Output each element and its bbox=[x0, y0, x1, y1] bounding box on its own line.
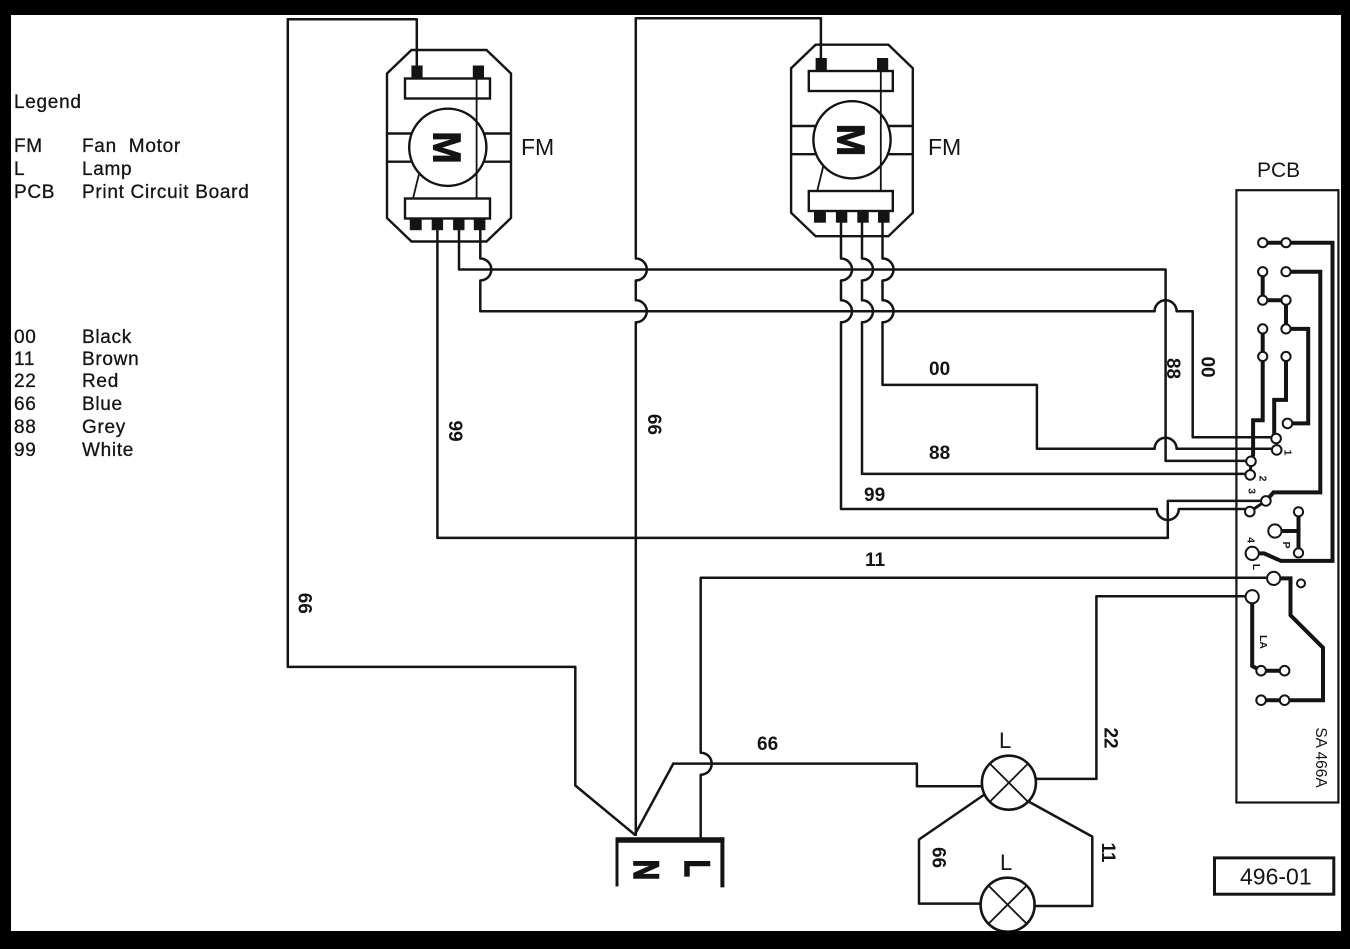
svg-text:White: White bbox=[82, 440, 134, 461]
svg-text:66: 66 bbox=[14, 394, 37, 415]
svg-text:PCB: PCB bbox=[14, 182, 55, 203]
svg-text:22: 22 bbox=[14, 371, 37, 392]
svg-text:Blue: Blue bbox=[82, 394, 123, 415]
PCB pad 3b bbox=[1245, 507, 1255, 517]
svg-text:88: 88 bbox=[1162, 358, 1183, 379]
PCB pad L bbox=[1267, 572, 1280, 585]
PCB trace row5 right to pad 1 bbox=[1274, 357, 1286, 439]
PCB pad row4 left bbox=[1258, 324, 1267, 333]
wire 11 N-L box to PCB with hop bbox=[701, 578, 1268, 838]
PCB trace row3-row4 right vertical bbox=[1284, 300, 1288, 329]
PCB pad row1 left bbox=[1258, 238, 1267, 247]
svg-text:M: M bbox=[425, 131, 468, 164]
frame border bottom bbox=[0, 931, 1350, 949]
wire 00 FM1 t4 with hop to PCB pad 1 bbox=[480, 228, 1270, 437]
PCB trace P tee bbox=[1275, 512, 1299, 553]
legend PCB row bbox=[14, 182, 249, 203]
fan motor FM1 body bbox=[387, 50, 511, 242]
wire 66 FM2 top terminal to centre line bbox=[636, 18, 821, 58]
fan motor FM1 top terminal 2 bbox=[473, 66, 484, 79]
PCB pad P trace end bbox=[1283, 419, 1293, 429]
svg-text:M: M bbox=[829, 124, 872, 157]
svg-text:Red: Red bbox=[82, 371, 119, 392]
PCB trace row3 horizontal bbox=[1263, 298, 1286, 302]
svg-text:Legend: Legend bbox=[14, 92, 82, 113]
PCB pad P bottom bbox=[1294, 548, 1303, 557]
frame border top bbox=[0, 0, 1350, 15]
svg-text:66: 66 bbox=[928, 847, 949, 868]
svg-text:2: 2 bbox=[1257, 476, 1269, 482]
PCB pad row4 right bbox=[1281, 324, 1290, 333]
PCB pad small isolated bbox=[1297, 579, 1305, 587]
legend 22 Red row bbox=[14, 371, 119, 392]
PCB pad 22 bbox=[1246, 590, 1259, 603]
PCB pad 2a bbox=[1246, 457, 1256, 467]
fan motor FM2 bottom terminal 1 bbox=[814, 211, 826, 223]
fan motor FM1 top terminal 1 bbox=[411, 66, 422, 79]
PCB trace pad 22 down to LA row1 bbox=[1252, 597, 1261, 671]
svg-text:3: 3 bbox=[1246, 488, 1258, 494]
PCB pad row1 right bbox=[1281, 238, 1290, 247]
svg-text:496-01: 496-01 bbox=[1240, 864, 1312, 890]
PCB trace LA row1 horizontal bbox=[1261, 669, 1285, 673]
PCB trace row5 left to pad 2 bbox=[1251, 357, 1263, 462]
PCB trace pad2a-pad2b link bbox=[1249, 461, 1253, 475]
svg-text:11: 11 bbox=[865, 550, 886, 571]
PCB pad LA row2 right bbox=[1280, 695, 1290, 705]
PCB pad 2b bbox=[1245, 470, 1255, 480]
frame border left bbox=[0, 0, 11, 949]
svg-text:66: 66 bbox=[757, 734, 778, 755]
svg-text:Grey: Grey bbox=[82, 417, 126, 438]
svg-text:L: L bbox=[677, 860, 717, 877]
PCB pad row5 right bbox=[1281, 352, 1290, 361]
PCB pad LA row1 left bbox=[1256, 666, 1266, 676]
svg-text:88: 88 bbox=[14, 417, 37, 438]
svg-text:SA 466A: SA 466A bbox=[1312, 727, 1329, 788]
fan motor FM2 body bbox=[791, 45, 913, 237]
drawing number box 496-01 bbox=[1215, 858, 1334, 894]
svg-text:L: L bbox=[999, 728, 1011, 753]
PCB pad row2 right bbox=[1281, 267, 1290, 276]
legend 66 Blue row bbox=[14, 394, 123, 415]
wire 88 FM1 t3 to PCB pad 2 bbox=[459, 228, 1246, 461]
svg-text:Brown: Brown bbox=[82, 349, 139, 370]
legend 11 Brown row bbox=[14, 349, 139, 370]
fan motor FM2 top terminal 2 bbox=[877, 58, 888, 71]
PCB pad 3a bbox=[1261, 496, 1271, 506]
fan motor FM2 bottom terminal 2 bbox=[836, 211, 847, 223]
fan motor FM1 bottom terminal 1 bbox=[410, 219, 422, 231]
PCB trace row4 right to pad P bbox=[1286, 329, 1308, 424]
wire 00 FM2 t3 with hops bbox=[883, 223, 1272, 449]
svg-text:L: L bbox=[1250, 564, 1262, 571]
legend FM row bbox=[14, 136, 181, 157]
svg-text:L: L bbox=[1000, 850, 1012, 875]
PCB pad row5 left bbox=[1258, 352, 1267, 361]
PCB pad P big bbox=[1268, 524, 1281, 537]
wire 66 horizontal to lamp L1 bbox=[673, 764, 982, 787]
svg-text:00: 00 bbox=[1197, 356, 1218, 377]
svg-text:LA: LA bbox=[1257, 635, 1269, 649]
fan motor FM2 bottom terminal 4 bbox=[878, 211, 890, 223]
svg-text:Lamp: Lamp bbox=[82, 159, 132, 180]
PCB pad P top bbox=[1294, 507, 1303, 516]
PCB pad 1b bbox=[1272, 445, 1282, 455]
legend 00 Black row bbox=[14, 327, 132, 348]
PCB trace row2 right to pad 3 bbox=[1266, 272, 1320, 501]
svg-text:Fan Motor: Fan Motor bbox=[82, 136, 181, 157]
fan motor FM1 bottom terminal 3 bbox=[453, 219, 464, 231]
svg-text:1: 1 bbox=[1282, 450, 1294, 456]
svg-text:88: 88 bbox=[929, 443, 950, 464]
PCB trace pad1-row to outer bracket and pad 4 bbox=[1252, 243, 1332, 561]
wire 99 FM1 t2 to PCB pad 3 bbox=[437, 228, 1260, 538]
svg-text:Print Circuit Board: Print Circuit Board bbox=[82, 182, 249, 203]
PCB board outline bbox=[1236, 190, 1338, 802]
PCB trace row4-row5 left vertical bbox=[1261, 329, 1265, 357]
svg-text:99: 99 bbox=[444, 420, 465, 441]
PCB pad row2 left bbox=[1258, 267, 1267, 276]
svg-text:FM: FM bbox=[14, 136, 43, 157]
PCB trace row2 left vertical bbox=[1261, 272, 1265, 301]
PCB pad LA row2 left bbox=[1256, 695, 1266, 705]
svg-text:99: 99 bbox=[864, 485, 885, 506]
fan motor FM2 bottom terminal 3 bbox=[857, 211, 868, 223]
wire 66 lamp L1 to lamp L2 bbox=[919, 795, 985, 904]
PCB pad row3 left bbox=[1258, 296, 1267, 305]
PCB pad 1a bbox=[1271, 434, 1281, 444]
PCB pad 4 bbox=[1246, 547, 1259, 560]
legend 88 Grey row bbox=[14, 417, 126, 438]
PCB trace pad3a-pad3b link bbox=[1250, 501, 1266, 512]
wire 88 FM2 t2 with hops bbox=[862, 223, 1245, 474]
PCB trace pad L to LA row2 bbox=[1274, 578, 1323, 700]
svg-text:4: 4 bbox=[1245, 537, 1257, 543]
wire 66 left vertical bbox=[288, 19, 635, 835]
wire 66 FM1 top terminal to top-left corner bbox=[288, 19, 417, 66]
svg-text:L: L bbox=[14, 159, 25, 180]
svg-text:99: 99 bbox=[14, 440, 37, 461]
terminal box N L bbox=[616, 837, 725, 887]
svg-text:N: N bbox=[626, 860, 666, 880]
svg-text:00: 00 bbox=[14, 327, 37, 348]
fan motor FM1 bottom terminal 4 bbox=[474, 219, 486, 231]
wire 66 junction diagonal to lamps bbox=[635, 764, 674, 835]
svg-text:P: P bbox=[1280, 541, 1292, 548]
wire 22 lamp L1 to PCB bbox=[1036, 596, 1247, 779]
svg-text:66: 66 bbox=[294, 593, 315, 614]
svg-text:22: 22 bbox=[1100, 727, 1121, 748]
svg-text:Black: Black bbox=[82, 327, 132, 348]
svg-text:11: 11 bbox=[14, 349, 35, 370]
wire 11 lamp L1 to lamp L2 bbox=[1029, 802, 1093, 907]
lamp L2 bbox=[981, 878, 1035, 932]
wire 66 centre vertical with hops bbox=[636, 18, 647, 835]
wire 99 FM2 t1 with hops bbox=[841, 223, 1245, 520]
lamp L1 bbox=[982, 756, 1036, 810]
frame border right bbox=[1341, 0, 1350, 949]
svg-text:11: 11 bbox=[1097, 842, 1118, 863]
svg-text:PCB: PCB bbox=[1257, 159, 1300, 182]
svg-text:FM: FM bbox=[928, 134, 961, 160]
fan motor FM2 top terminal 1 bbox=[816, 58, 827, 71]
legend 99 White row bbox=[14, 440, 134, 461]
legend L row bbox=[14, 159, 132, 180]
PCB pad row3 right bbox=[1281, 296, 1290, 305]
fan motor FM1 bottom terminal 2 bbox=[432, 219, 443, 231]
PCB trace LA row2 horizontal bbox=[1261, 698, 1285, 702]
svg-text:FM: FM bbox=[521, 134, 554, 160]
svg-text:00: 00 bbox=[929, 359, 950, 380]
PCB pad LA row1 right bbox=[1280, 666, 1290, 676]
svg-text:66: 66 bbox=[643, 414, 664, 435]
